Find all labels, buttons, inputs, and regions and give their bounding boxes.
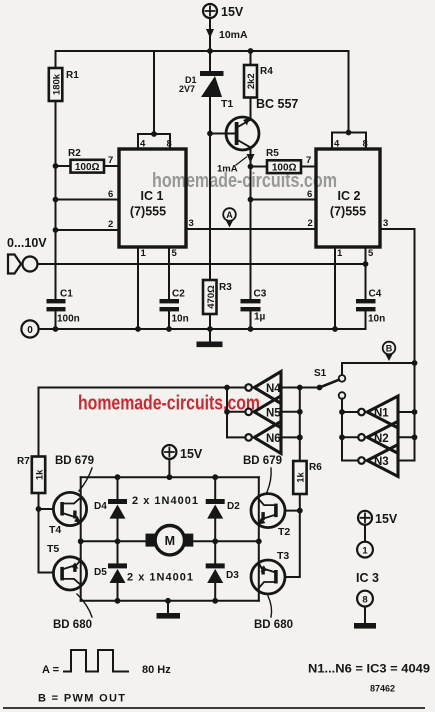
svg-text:7: 7 [306, 155, 311, 166]
ground under R3 [197, 342, 223, 348]
svg-text:2 x 1N4001: 2 x 1N4001 [132, 495, 198, 507]
svg-text:4: 4 [140, 139, 146, 150]
capacitor C4 [356, 289, 385, 330]
terminal 0 [21, 320, 38, 337]
wire IC2 pin3 output [380, 229, 415, 363]
wire left bus [55, 166, 57, 299]
svg-text:R7: R7 [17, 456, 30, 467]
svg-text:1k: 1k [34, 469, 45, 480]
BD labels [53, 455, 293, 631]
svg-text:5: 5 [368, 248, 374, 259]
svg-text:M: M [165, 534, 175, 548]
capacitor C1 [47, 289, 80, 330]
svg-text:T1: T1 [221, 98, 233, 110]
svg-text:N6: N6 [266, 433, 281, 445]
resistor R3 [203, 134, 232, 342]
svg-text:6: 6 [108, 189, 113, 200]
svg-text:N4: N4 [266, 383, 281, 395]
IC2 pin5 stub [365, 247, 367, 299]
svg-text:100Ω: 100Ω [75, 162, 100, 173]
node T1 collector [248, 164, 254, 170]
IC2 pin1 stub [334, 247, 336, 329]
bridge top rail [81, 476, 259, 478]
svg-text:T3: T3 [277, 550, 289, 562]
transistor T5 BD680 [47, 543, 87, 590]
svg-text:1: 1 [141, 248, 147, 259]
svg-text:C1: C1 [60, 289, 73, 300]
svg-text:B = PWM OUT: B = PWM OUT [38, 693, 125, 705]
svg-text:470Ω: 470Ω [206, 285, 217, 309]
zener D1 [179, 48, 224, 133]
svg-text:BD 680: BD 680 [53, 619, 92, 631]
diode D2 [206, 477, 241, 541]
svg-text:1k: 1k [296, 472, 307, 483]
svg-text:S1: S1 [314, 368, 327, 379]
inverter N3 [358, 445, 414, 477]
svg-text:8: 8 [363, 139, 368, 150]
diode D4 [94, 477, 127, 541]
wire lower contact bus [342, 399, 358, 461]
svg-text:D4: D4 [94, 501, 107, 512]
node B marker [383, 342, 396, 361]
op IC2 (7)555 box [316, 149, 380, 247]
bridge bottom rail [81, 600, 259, 602]
svg-text:N5: N5 [266, 407, 281, 419]
right column IC3 supply [354, 511, 398, 629]
IC1 pin5 stub [168, 247, 170, 299]
motor M [78, 526, 262, 555]
svg-text:0...10V: 0...10V [7, 236, 47, 250]
svg-text:T4: T4 [49, 524, 61, 536]
svg-text:1mA: 1mA [217, 164, 238, 175]
switch S1 [314, 368, 345, 399]
input 0...10V [7, 236, 47, 274]
svg-text:1µ: 1µ [254, 312, 266, 323]
svg-text:(7)555: (7)555 [330, 205, 366, 219]
svg-text:R6: R6 [309, 462, 322, 473]
svg-text:BD 680: BD 680 [254, 619, 293, 631]
svg-text:2V7: 2V7 [179, 84, 195, 94]
inverter N4 [227, 372, 300, 404]
N4-6 output bus [226, 388, 228, 438]
ground bridge [167, 601, 169, 613]
svg-text:15V: 15V [375, 512, 398, 526]
wire to R7 [39, 388, 228, 457]
wire IC1 pin3 to IC2 pin2 [186, 228, 316, 230]
supply +15V bridge [162, 445, 203, 477]
node pin6 IC2 [248, 197, 254, 203]
node pin2 bus [53, 227, 59, 233]
svg-text:N1...N6 = IC3 = 4049: N1...N6 = IC3 = 4049 [308, 662, 430, 676]
svg-text:IC 2: IC 2 [338, 189, 361, 203]
resistor R7 [17, 456, 45, 509]
svg-text:8: 8 [167, 139, 172, 150]
svg-text:3: 3 [383, 218, 388, 229]
IC1 top bracket pins 4,8 [138, 51, 172, 150]
svg-text:5: 5 [172, 248, 178, 259]
N4-6 input bus [299, 388, 301, 462]
svg-text:C2: C2 [172, 289, 185, 300]
wire B node [342, 362, 415, 364]
svg-text:6: 6 [307, 189, 312, 200]
svg-text:7: 7 [108, 155, 113, 166]
resistor R1 [49, 51, 79, 166]
svg-text:IC 3: IC 3 [356, 571, 379, 585]
wire pin6 IC2 [251, 199, 317, 201]
svg-text:R4: R4 [260, 66, 273, 77]
supply +15V symbol [203, 4, 244, 19]
svg-text:2 x 1N4001: 2 x 1N4001 [127, 572, 193, 584]
svg-text:BD 679: BD 679 [243, 455, 282, 467]
IC1 pin1 stub [137, 247, 139, 329]
resistor R6 [293, 435, 322, 511]
transistor T2 BD679 [251, 494, 303, 577]
svg-text:15V: 15V [221, 5, 244, 19]
svg-text:100Ω: 100Ω [272, 162, 297, 173]
svg-text:8: 8 [362, 594, 367, 605]
svg-text:2: 2 [308, 218, 313, 229]
svg-text:1: 1 [362, 545, 368, 556]
svg-text:N3: N3 [374, 456, 389, 468]
svg-text:100n: 100n [57, 314, 80, 325]
svg-text:BD 679: BD 679 [55, 455, 94, 467]
svg-text:A: A [226, 210, 233, 220]
wire supply to rail [209, 18, 211, 51]
wire to S1 top contact [341, 363, 343, 375]
svg-text:180k: 180k [52, 73, 63, 95]
transistor T3 BD680 [251, 550, 289, 594]
svg-text:R2: R2 [68, 148, 81, 159]
wire input to IC2 pin5 [38, 263, 366, 265]
wire current node down [250, 167, 252, 300]
svg-text:IC 1: IC 1 [141, 189, 164, 203]
svg-text:R3: R3 [219, 282, 232, 293]
IC2 top bracket pins 4,8 [332, 51, 368, 150]
svg-text:10mA: 10mA [219, 29, 248, 41]
wire pin2 IC1 [56, 229, 120, 231]
svg-text:A =: A = [42, 664, 59, 676]
capacitor C2 [160, 289, 189, 330]
svg-text:4: 4 [334, 139, 340, 150]
top rail wire [56, 50, 349, 52]
diode D5 [94, 541, 127, 601]
svg-text:D3: D3 [226, 570, 239, 581]
svg-text:T2: T2 [278, 526, 290, 538]
svg-text:C4: C4 [369, 289, 382, 300]
svg-text:BC 557: BC 557 [256, 97, 298, 111]
svg-text:1: 1 [337, 248, 343, 259]
node A marker [223, 208, 236, 227]
wire N1-3 input bus [414, 363, 416, 461]
wire S1 common to N bus [300, 387, 320, 389]
diode D3 [206, 541, 240, 601]
svg-text:R1: R1 [66, 70, 79, 81]
capacitor C3 [241, 289, 267, 330]
svg-text:N1: N1 [374, 408, 389, 420]
left bridge column [80, 477, 82, 601]
svg-text:B: B [386, 344, 393, 354]
node R1/R2 junction [53, 163, 59, 169]
svg-text:D5: D5 [94, 567, 107, 578]
svg-text:2k2: 2k2 [246, 73, 257, 89]
node pin6 bus [53, 197, 59, 203]
svg-text:R5: R5 [266, 148, 279, 159]
legend A waveform [42, 650, 171, 676]
inverter N6 [227, 421, 300, 453]
inverter N2 [342, 421, 417, 453]
bottom rule [4, 707, 424, 709]
T4/T5 base bus [36, 506, 42, 512]
svg-text:3: 3 [189, 218, 194, 229]
op IC1 (7)555 box [119, 149, 186, 247]
inverter N5 [227, 396, 300, 428]
svg-text:C3: C3 [254, 289, 267, 300]
svg-text:15V: 15V [180, 447, 203, 461]
svg-text:N2: N2 [374, 433, 389, 445]
transistor T4 BD679 [49, 492, 87, 536]
resistor R4 [244, 48, 273, 118]
1mA arrow [217, 154, 255, 175]
svg-text:0: 0 [27, 325, 33, 336]
svg-text:10n: 10n [368, 314, 385, 325]
wire pin6 IC1 [56, 199, 120, 201]
transistor T1 BC557 [207, 97, 298, 167]
svg-text:80 Hz: 80 Hz [142, 664, 171, 676]
right bridge column [258, 477, 260, 601]
svg-text:(7)555: (7)555 [130, 205, 166, 219]
resistor R2 [56, 148, 120, 173]
10mA current arrow [206, 29, 214, 38]
svg-text:87462: 87462 [370, 684, 395, 694]
inverter N1 [342, 396, 417, 428]
ground rail [39, 328, 366, 330]
svg-text:10n: 10n [172, 314, 189, 325]
svg-text:2: 2 [108, 219, 113, 230]
resistor R5 [251, 148, 317, 173]
svg-text:T5: T5 [47, 543, 59, 555]
svg-text:D2: D2 [227, 501, 240, 512]
